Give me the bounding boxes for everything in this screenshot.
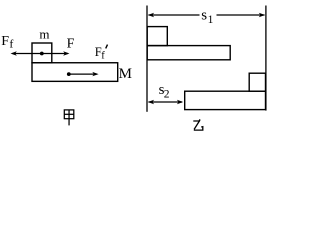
svg-text:M: M bbox=[119, 66, 132, 82]
svg-text:1: 1 bbox=[208, 14, 214, 26]
svg-text:f: f bbox=[101, 51, 105, 62]
svg-text:F: F bbox=[67, 37, 75, 52]
svg-text:f: f bbox=[9, 37, 13, 51]
svg-text:2: 2 bbox=[164, 88, 170, 100]
svg-text:s: s bbox=[201, 8, 207, 24]
svg-text:m: m bbox=[39, 27, 49, 42]
svg-text:F: F bbox=[1, 34, 9, 49]
